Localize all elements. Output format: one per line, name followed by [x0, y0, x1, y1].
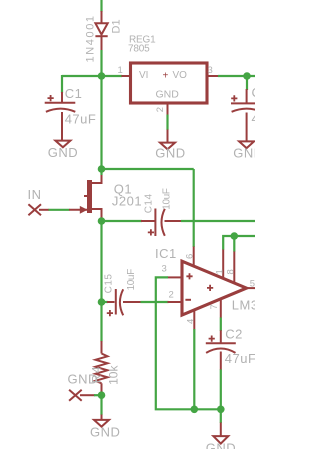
capacitor C2 — [206, 327, 257, 371]
node F junction — [231, 232, 239, 240]
capacitor C15 — [104, 269, 142, 316]
REG1 pin 2 lead — [155, 103, 168, 115]
svg-text:C1: C1 — [65, 86, 83, 101]
wire C15 to IC1 pin 2 — [141, 301, 169, 303]
svg-text:3: 3 — [208, 65, 213, 76]
svg-text:C15: C15 — [104, 274, 115, 294]
svg-text:GND: GND — [155, 145, 185, 160]
capacitor C14 — [141, 188, 182, 236]
node G junction — [243, 72, 251, 80]
wire REG1 pin2 to ground — [166, 115, 168, 131]
svg-text:VI: VI — [139, 70, 148, 81]
transistor Q1 J201 — [69, 174, 142, 219]
svg-text:10k: 10k — [107, 365, 121, 385]
ground bottom-right — [206, 423, 236, 449]
svg-text:C14: C14 — [144, 193, 155, 213]
wire corner down to C1 — [61, 75, 63, 93]
wire pin 8 stub — [233, 236, 235, 252]
pin connector IN — [28, 187, 50, 215]
IC1 pin 4 lead — [186, 309, 197, 330]
svg-text:IN: IN — [28, 187, 42, 202]
IC1 pin 7 lead — [209, 299, 221, 318]
wire IC1 pin4 down to rail — [193, 329, 195, 409]
svg-text:+: + — [163, 71, 169, 82]
node D junction — [98, 298, 106, 306]
svg-text:47uF: 47uF — [65, 112, 97, 127]
svg-text:IC1: IC1 — [155, 246, 177, 261]
ground bottom-left — [90, 415, 120, 440]
capacitor C1 — [45, 86, 97, 140]
voltage regulator REG1 7805 — [128, 35, 207, 104]
wire node C to C14 — [102, 220, 143, 222]
svg-text:8: 8 — [226, 269, 237, 274]
svg-text:VO: VO — [173, 70, 188, 81]
node B junction — [98, 165, 106, 173]
wire node C down to node D — [100, 221, 102, 302]
ground below C3 — [233, 141, 263, 160]
IC1 pin 2 lead — [168, 290, 183, 303]
svg-text:10uF: 10uF — [162, 188, 173, 209]
node C junction — [98, 217, 106, 225]
REG1 pin 1 lead — [118, 65, 130, 76]
svg-text:GND: GND — [233, 146, 255, 161]
svg-text:D1: D1 — [111, 19, 123, 33]
wire GND pin to node E — [94, 394, 102, 396]
wire IC1 gain pins 1,8 to right edge — [223, 236, 255, 250]
wire node A to C1 corner — [62, 75, 102, 77]
node H junction — [191, 406, 199, 414]
IC1 pin 5 lead — [245, 279, 255, 290]
IC1 pin 1 lead — [215, 249, 226, 279]
svg-text:J201: J201 — [112, 194, 142, 209]
REG1 pin 3 lead — [207, 65, 219, 76]
svg-text:2: 2 — [155, 107, 166, 112]
ground below REG1 — [155, 130, 185, 161]
wire C2 bottom to rail — [220, 369, 222, 409]
wire node B to pin6 drop corner — [102, 168, 194, 170]
svg-text:C3: C3 — [252, 85, 256, 100]
wire rail corner down to ground — [220, 409, 222, 423]
node E junction — [98, 391, 106, 399]
svg-text:LM386: LM386 — [232, 297, 255, 312]
wire node D down to R4 — [100, 302, 102, 342]
svg-text:5: 5 — [250, 279, 255, 290]
IC1 pin 6 lead — [185, 247, 196, 267]
svg-text:GND: GND — [156, 89, 180, 101]
IC1 pin 3 lead — [162, 264, 183, 278]
svg-text:1: 1 — [215, 269, 226, 274]
svg-text:10uF: 10uF — [126, 269, 137, 290]
svg-text:1: 1 — [118, 65, 123, 76]
wire node A to REG1 pin1 — [102, 75, 123, 77]
wire Q1 source stub to node C — [100, 218, 102, 221]
svg-text:GND: GND — [68, 372, 98, 387]
diode D1 — [85, 11, 123, 63]
wire D1 cathode down through node A to node B — [100, 50, 102, 169]
svg-text:GND: GND — [206, 441, 236, 449]
wire Q1 drain stub to node B — [100, 169, 102, 175]
svg-text:4: 4 — [186, 319, 197, 324]
svg-text:6: 6 — [185, 254, 196, 259]
svg-text:7: 7 — [209, 304, 220, 309]
capacitor C3 — [231, 85, 283, 141]
node I junction — [217, 406, 225, 414]
svg-text:GND: GND — [48, 145, 78, 160]
wire IC1 pin7 to C2 — [220, 318, 222, 332]
resistor R4 — [89, 341, 120, 395]
svg-text:C2: C2 — [225, 327, 243, 342]
node A junction — [98, 72, 106, 80]
wire REG1 pin3 to node G and right edge — [218, 75, 255, 77]
wire IC1 pin3 down to ground rail — [156, 277, 221, 409]
ground below C1 — [48, 141, 78, 160]
op-amp IC1 LM386 — [155, 246, 274, 315]
wire node G down to C3 — [246, 76, 248, 90]
IC1 pin 8 lead — [226, 251, 237, 283]
svg-text:1N4001: 1N4001 — [85, 14, 97, 62]
svg-text:47uF: 47uF — [225, 351, 255, 366]
svg-text:3: 3 — [162, 264, 167, 275]
pin connector GND — [68, 372, 98, 401]
svg-text:47uF: 47uF — [252, 111, 256, 126]
wire top feed to D1 — [100, 0, 102, 12]
svg-text:7805: 7805 — [128, 44, 150, 55]
wire node E down to ground — [100, 395, 102, 415]
svg-text:2: 2 — [169, 290, 174, 301]
wire drop to IC1 pin 6 — [193, 169, 195, 247]
wire node D to C15 — [102, 301, 109, 303]
wire C14 to right edge — [181, 220, 255, 222]
svg-text:GND: GND — [90, 425, 120, 440]
wire IN to Q1 gate — [49, 209, 70, 211]
